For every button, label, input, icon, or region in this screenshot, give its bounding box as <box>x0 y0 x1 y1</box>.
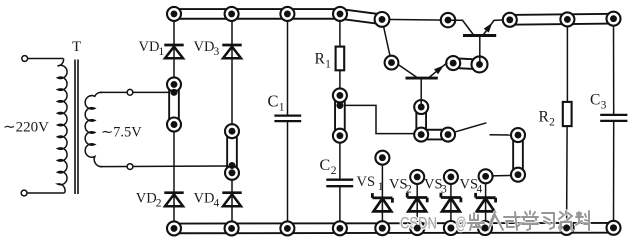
node AC left transformer tap (redraw) <box>171 89 178 96</box>
svg-text:∼7.5V: ∼7.5V <box>101 125 142 141</box>
wire R2 top <box>566 21 568 102</box>
diode VD2 <box>164 191 183 194</box>
zener diode VS2 <box>407 196 427 199</box>
transistor Q1 emitter lead <box>428 63 447 79</box>
svg-text:VD: VD <box>194 39 215 55</box>
transformer T primary bottom terminal <box>21 190 27 196</box>
node bottom rail junction 5 <box>375 221 389 235</box>
node AC left: transformer tap <box>171 89 178 96</box>
wire Q1 base node segment (hollow) <box>421 107 448 135</box>
node bottom rail junction 8 <box>478 221 492 235</box>
node Q2 collector <box>441 13 455 27</box>
transistor Q1 base lead <box>420 78 422 107</box>
wire AC node segment right (hollow) <box>226 131 238 173</box>
zener diode VS4 <box>476 196 496 199</box>
transformer T primary winding <box>58 59 68 194</box>
node VS2 top contact <box>410 170 424 184</box>
node VS4 top contact <box>479 169 493 183</box>
svg-text:3: 3 <box>441 184 447 196</box>
svg-text:C: C <box>268 92 279 111</box>
node AC right top <box>225 124 239 138</box>
wire top rail to AC node through VD1 <box>173 16 175 86</box>
zener diode VS3 <box>441 196 461 199</box>
svg-text:2: 2 <box>406 184 412 196</box>
resistor R1 <box>336 47 345 71</box>
switch lever (wiper) <box>456 123 487 132</box>
wire top rail bus (hollow) <box>174 8 340 20</box>
wire collector bus <box>382 18 448 21</box>
node bottom rail junction 3 <box>280 221 294 235</box>
wire AC node to bottom rail through VD2 <box>173 123 175 228</box>
node bottom rail dots (over watermark) <box>379 225 386 232</box>
wire R1 top <box>339 16 341 48</box>
node bottom rail junction 9 <box>560 221 574 235</box>
node switch throw bottom <box>511 168 525 182</box>
wire R1 to node <box>339 70 341 98</box>
wire Q1 emitter to Q2 base segment (hollow) <box>453 63 479 64</box>
node Q1 emitter <box>446 56 460 70</box>
wire C3 bottom <box>613 121 615 228</box>
wire C3 top <box>613 20 615 115</box>
transformer T secondary bottom terminal <box>127 164 133 170</box>
svg-text:1: 1 <box>325 59 331 71</box>
node AC right: transformer tap <box>229 162 236 169</box>
node VS1 top contact <box>375 151 389 165</box>
node top rail junction 2 <box>225 7 239 21</box>
transformer T secondary winding <box>85 92 102 166</box>
node AC left bottom <box>167 118 181 132</box>
diode VD3 <box>222 44 241 47</box>
transistor Q2 base bar <box>463 34 496 37</box>
wire R2 bottom <box>566 126 569 228</box>
wire VS4 branch <box>485 178 487 228</box>
node output rail junction 3 <box>607 12 621 26</box>
wire secondary bottom lead <box>100 165 227 168</box>
svg-text:VS: VS <box>357 174 376 190</box>
svg-text:T: T <box>72 39 81 55</box>
wire node to C2 <box>339 134 341 180</box>
wire secondary top lead <box>100 91 169 93</box>
zener diode VS1 <box>372 196 392 199</box>
transformer T primary top terminal <box>22 56 28 62</box>
wire switch common segment (hollow) <box>512 135 524 175</box>
node Q1 collector <box>385 56 399 70</box>
svg-text:1: 1 <box>378 181 384 193</box>
wire primary bottom lead <box>27 192 64 194</box>
transistor Q2 collector lead <box>451 20 474 35</box>
wire top rail sloped segment (hollow) <box>340 14 382 20</box>
svg-text:C: C <box>590 91 600 108</box>
transformer T core <box>74 60 76 195</box>
svg-text:2: 2 <box>331 165 337 177</box>
capacitor C2 <box>326 179 353 181</box>
node collector bus left <box>375 12 390 27</box>
wire R1 node to Q1 base node (zigzag) <box>340 105 415 133</box>
transistor Q2 emitter lead <box>483 20 504 36</box>
svg-text:3: 3 <box>214 46 220 58</box>
capacitor C1 <box>274 114 301 116</box>
wire C1 bottom <box>287 121 289 228</box>
transistor Q2 base lead <box>479 36 481 65</box>
wire switch throw to node <box>490 134 513 136</box>
node R1 bottom <box>333 88 347 102</box>
node AC right bottom <box>225 166 239 180</box>
svg-text:2: 2 <box>156 197 162 209</box>
wire Q1 collector riser <box>382 19 392 62</box>
node top rail junction 4 <box>333 7 347 21</box>
node output rail junction 1 <box>503 13 517 27</box>
node bottom rail junction 6 <box>410 221 424 235</box>
svg-text:VS: VS <box>389 177 408 193</box>
wire top rail to AC node through VD3 <box>231 16 233 133</box>
svg-text:VS: VS <box>460 177 479 193</box>
node bottom rail junction 10 <box>607 221 621 235</box>
wire primary top lead <box>28 58 64 60</box>
svg-text:@: @ <box>456 215 467 233</box>
node output rail junction 2 <box>560 12 574 26</box>
wire node to VS4 top <box>491 174 512 177</box>
svg-text:R: R <box>539 109 550 126</box>
node R1 zigzag tap (redraw) <box>336 102 343 109</box>
node bottom rail junction 7 <box>444 221 458 235</box>
svg-text:VS: VS <box>424 177 443 193</box>
node Q2 base <box>472 56 488 72</box>
wire VS1 branch <box>381 159 383 228</box>
diode VD1 <box>164 44 183 47</box>
node bottom rail junction 1 <box>167 221 181 235</box>
resistor R2 <box>563 102 572 126</box>
transistor Q2 emitter arrow <box>484 23 493 33</box>
svg-text:1: 1 <box>279 102 285 114</box>
svg-text:R: R <box>315 51 326 68</box>
node Q1 base corner <box>414 128 428 142</box>
node R1/zigzag tap <box>336 102 343 109</box>
wire AC node to bottom rail through VD4 <box>231 171 233 228</box>
wire VS3 branch <box>450 178 452 228</box>
node bottom rail junction 4 <box>333 221 347 235</box>
svg-text:3: 3 <box>601 99 607 111</box>
node top rail junction 1 <box>167 7 181 21</box>
wire R1 output node segment (hollow) <box>334 95 346 135</box>
wire bottom rail bus (hollow) <box>174 222 614 234</box>
node C2 top <box>333 129 347 143</box>
svg-text:VD: VD <box>139 39 160 55</box>
svg-text:VD: VD <box>136 190 157 206</box>
wire output rail bus (hollow) <box>510 19 614 20</box>
node top rail junction 3 <box>280 7 294 21</box>
node AC right transformer tap (redraw) <box>229 162 236 169</box>
node Q1 base top <box>414 100 428 114</box>
wire C1 top <box>287 16 289 116</box>
node VS3 top contact <box>444 170 458 184</box>
node bottom rail junction 2 <box>225 221 239 235</box>
svg-text:2: 2 <box>549 117 555 129</box>
node switch throw top <box>511 128 525 142</box>
wire VS2 branch <box>416 178 418 228</box>
svg-text:VD: VD <box>194 190 215 206</box>
svg-text:C: C <box>320 157 331 174</box>
svg-text:1: 1 <box>159 46 165 58</box>
node switch pole <box>441 128 455 142</box>
svg-text:4: 4 <box>477 184 483 196</box>
transistor Q1 base bar <box>406 77 438 80</box>
wire C2 to bottom rail <box>339 186 341 228</box>
diode VD4 <box>222 191 241 194</box>
transistor Q1 emitter arrow <box>434 65 444 74</box>
node AC left: VD1 anode <box>167 77 181 91</box>
capacitor C3 <box>600 114 627 116</box>
transistor Q1 collector lead <box>398 65 418 78</box>
svg-text:4: 4 <box>214 197 220 209</box>
svg-text:∼220V: ∼220V <box>3 120 49 136</box>
wire AC node segment left (hollow) <box>168 84 180 124</box>
transformer T secondary top terminal <box>127 89 133 95</box>
